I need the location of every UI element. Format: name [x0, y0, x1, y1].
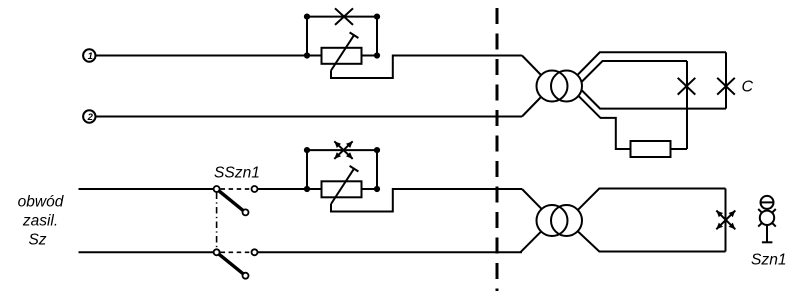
- wire T1 secondary outer bottom: [582, 90, 727, 109]
- switch SSzn1 pole 2: fixed contact: [252, 249, 258, 255]
- switch SSzn1 pole 1: moving blade: [219, 191, 243, 210]
- terminal node 2: [83, 110, 95, 123]
- switch SSzn1 pole 1: open-position dashed wire: [221, 188, 251, 190]
- switch SSzn1 pole 2: moving blade: [219, 254, 243, 273]
- varistor combo2 leads: [307, 188, 322, 190]
- wire line 1: [96, 55, 307, 57]
- wire T1 secondary outer top: [578, 52, 727, 75]
- wire combo1 top branch: [307, 16, 377, 18]
- wire combo2 left branch: [306, 150, 308, 189]
- svg-text:SSzn1: SSzn1: [214, 164, 260, 181]
- fuse-gap X inner: [678, 78, 696, 95]
- wire T2 secondary right vertical: [725, 189, 727, 252]
- varistor combo1 leads: [307, 55, 322, 57]
- transformer T1: [537, 71, 568, 102]
- wire T2 secondary bottom: [578, 232, 726, 252]
- switch SSzn1 pole 1: blade end contact: [243, 209, 249, 215]
- svg-text:2: 2: [87, 112, 94, 123]
- lamp Szn1 stem and base: [766, 225, 768, 242]
- fuse-gap X combo2: [334, 141, 352, 159]
- varistor combo2 wiper arrow: [331, 169, 354, 204]
- wire T2 primary bottom lead: [520, 232, 540, 253]
- svg-text:C: C: [742, 79, 754, 96]
- wire combo1 right branch: [376, 17, 378, 56]
- wire combo1 wiper out: [331, 56, 522, 79]
- wire T1 secondary inner top: [582, 61, 688, 82]
- wire combo2 wiper out: [331, 189, 522, 212]
- transformer T2: [537, 205, 568, 236]
- label obwód zasil. Sz: [18, 193, 65, 248]
- wire supply bottom: [79, 251, 214, 253]
- lamp Szn1 lower element (circle with diagonal stubs): [760, 211, 774, 225]
- svg-text:1: 1: [88, 51, 93, 62]
- terminal node 1: [83, 49, 95, 62]
- svg-text:Szn1: Szn1: [751, 252, 787, 269]
- switch SSzn1 pole 2: open-position dashed wire: [221, 251, 251, 253]
- wire pole2 out: [258, 251, 522, 253]
- wire supply top: [79, 188, 214, 190]
- svg-text:obwód: obwód: [18, 193, 65, 210]
- wire line 2: [96, 116, 522, 118]
- wire R right lead: [671, 148, 688, 150]
- wire T1 secondary tap lead: [579, 96, 631, 149]
- varistor combo1 wiper arrow: [331, 35, 354, 70]
- switch SSzn1 pole 2: pivot contact: [214, 249, 220, 255]
- surge arrester X (arrowed) bottom: [716, 211, 735, 230]
- wire T2 primary top lead: [522, 189, 542, 209]
- boundary dashed line: [496, 8, 499, 291]
- wire outer branch vertical: [725, 52, 727, 108]
- wire combo2 top branch: [307, 149, 377, 151]
- svg-text:Sz: Sz: [28, 231, 46, 248]
- switch SSzn1 pole 1: fixed contact: [252, 186, 258, 192]
- wire inner branch vertical: [686, 61, 688, 149]
- switch mechanical linkage (dash-dot): [216, 193, 218, 249]
- junction dots combo1: [304, 14, 310, 20]
- junction dots combo2: [304, 147, 310, 153]
- wire T1 primary bottom lead: [522, 97, 541, 117]
- wire pole1 to combo2: [258, 188, 307, 190]
- varistor combo2 body: [322, 181, 362, 197]
- resistor R (damping): [631, 141, 671, 157]
- fuse-gap X outer: [717, 78, 735, 95]
- switch SSzn1 pole 2: blade end contact: [243, 273, 249, 279]
- wire combo1 left branch: [306, 17, 308, 56]
- wire combo2 right branch: [376, 150, 378, 189]
- varistor combo1 body: [322, 48, 362, 64]
- wire T2 secondary top: [578, 189, 725, 210]
- wire T1 primary top lead: [522, 56, 541, 76]
- fuse-gap X combo1: [335, 8, 353, 25]
- switch SSzn1 pole 1: pivot contact: [214, 186, 220, 192]
- svg-text:zasil.: zasil.: [22, 213, 58, 230]
- lamp Szn1 upper element (circle with bar): [761, 196, 774, 209]
